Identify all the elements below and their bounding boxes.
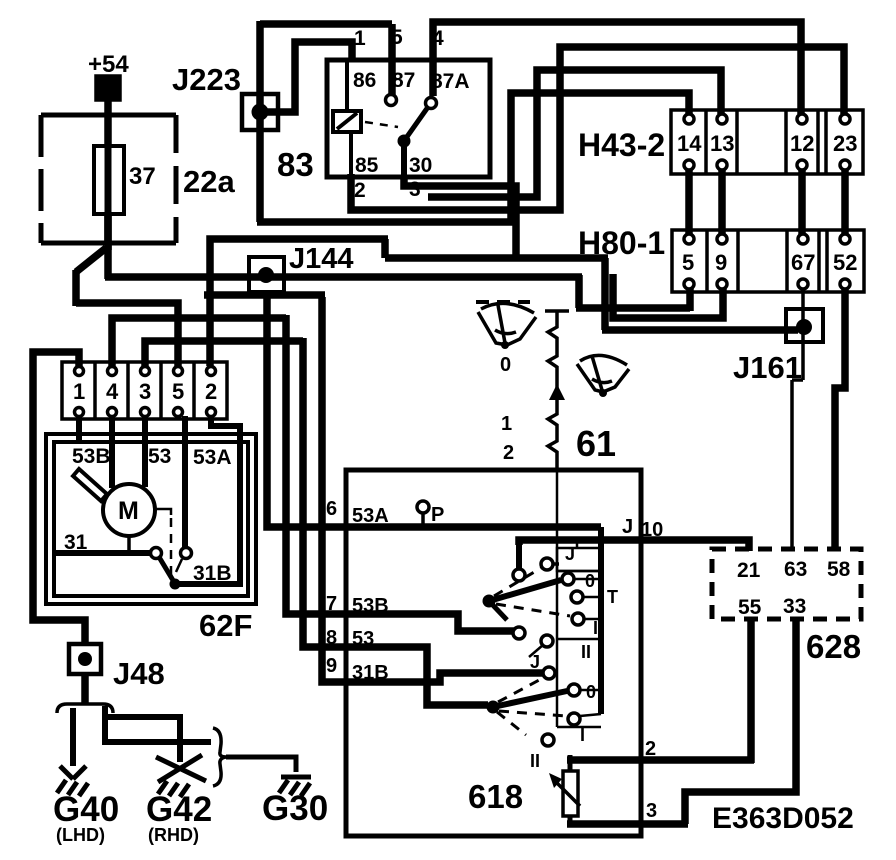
wire 628 pin33 down (685, 619, 796, 824)
svg-text:II: II (530, 751, 540, 771)
switch1 cell separators (557, 571, 601, 639)
switch1 pivot and arms (483, 568, 571, 620)
motor M (103, 484, 155, 536)
wire 628 pin55 down to rheostat wire (747, 619, 755, 763)
svg-text:9: 9 (326, 655, 337, 677)
wire pin87 riser (388, 24, 396, 97)
svg-text:14: 14 (677, 131, 702, 156)
wire J144 down to 618 pin 6 (267, 292, 346, 527)
wire motor pin3 from 618 pin8 (145, 341, 303, 366)
switch1 contacts (513, 558, 604, 657)
fuse 37 (94, 146, 156, 214)
wire y197 pin13 arm (428, 70, 721, 197)
618 pin labels (326, 498, 523, 815)
unit 618 box (346, 470, 641, 836)
park switch contact B (181, 548, 192, 559)
svg-text:628: 628 (806, 628, 861, 665)
component 61 wiper icon right (577, 355, 629, 397)
connector J223 (172, 62, 278, 130)
relay coil (333, 61, 361, 177)
wire 87A to H43 pin12 (433, 22, 801, 114)
svg-text:22a: 22a (183, 164, 235, 199)
wire jog x385 (381, 239, 389, 258)
svg-text:J144: J144 (289, 243, 354, 275)
svg-text:J223: J223 (172, 62, 241, 97)
svg-text:(RHD): (RHD) (148, 825, 199, 845)
wire J223 branch to relay pin1 (266, 42, 352, 112)
svg-text:H43-2: H43-2 (578, 127, 665, 163)
wire relay pin2 to H43 pin23 (351, 47, 844, 210)
svg-text:67: 67 (791, 250, 815, 275)
wire fuse output down (104, 214, 112, 279)
ground G42 (146, 755, 212, 845)
wire y222 to H43 pin14 riser (257, 93, 689, 222)
svg-text:23: 23 (833, 131, 857, 156)
wire rheostat top to 628 pin55 (567, 756, 754, 764)
svg-text:4: 4 (106, 379, 119, 404)
wire fuse branch diagonal to left rail (76, 248, 106, 272)
switch1 J cell (557, 540, 601, 571)
switch1 contact rail (598, 527, 604, 714)
wire fuse to J144 node (105, 273, 582, 281)
component box 22a (41, 115, 235, 243)
svg-text:58: 58 (827, 558, 851, 581)
wire left rail down (72, 270, 80, 306)
wire rheostat bottom to 628 pin33 (567, 820, 688, 828)
wire branch to G42 and brace (102, 706, 211, 762)
relay switch arm 30 (398, 107, 429, 177)
svg-text:J: J (565, 544, 575, 564)
wire relay pin3 exit (404, 177, 516, 258)
connector J161 (733, 309, 823, 385)
svg-text:2: 2 (503, 442, 514, 464)
wire 53A row inside 618 (346, 523, 601, 531)
svg-text:31B: 31B (193, 562, 232, 585)
wire pin4 riser down to 53B row (286, 315, 514, 631)
wire H80-1 pin9 path (613, 274, 723, 318)
svg-text:M: M (118, 497, 139, 525)
wire J/10 to 628 pin21 (519, 540, 749, 551)
wire motor stem to 31 (127, 536, 131, 553)
motor connector 1 4 3 5 2 (62, 362, 227, 419)
wire motor pin1 to left rail (33, 352, 85, 644)
wire H43 pin13 to H80 pin9 (718, 170, 726, 235)
svg-text:2: 2 (205, 379, 217, 404)
svg-text:3: 3 (139, 379, 151, 404)
svg-text:9: 9 (715, 250, 727, 275)
ground G30 (262, 777, 328, 828)
wire H43 pin14 to H80 pin5 (685, 170, 693, 235)
wire to G40 (70, 708, 76, 766)
motor linkage dashed (155, 509, 171, 580)
park switch contact A (151, 548, 162, 559)
wire relay 30 horizontal y258 (385, 254, 608, 262)
svg-text:53: 53 (352, 628, 374, 650)
connector J48 (69, 644, 165, 691)
switch2 contacts (542, 667, 601, 746)
relay contact 87A (426, 98, 437, 109)
park switch arm (159, 557, 174, 582)
ground G40 (53, 766, 119, 845)
wire J48 down (81, 674, 89, 704)
wire brace to G30 (226, 757, 296, 772)
node +54 supply terminal (88, 51, 129, 98)
component 628 dashed box (712, 549, 861, 665)
svg-text:0: 0 (585, 571, 595, 591)
wire H80-1 pin5 stub (686, 288, 694, 311)
wire to motor pin 5 (76, 303, 178, 366)
svg-text:31B: 31B (352, 662, 389, 684)
62F internal labels (64, 445, 232, 585)
svg-text:G30: G30 (262, 789, 328, 828)
connector H80-1 (578, 225, 864, 292)
component 61 rheostat zigzag (500, 311, 616, 470)
park switch open tick (176, 559, 182, 572)
svg-text:J: J (530, 652, 540, 672)
svg-text:53: 53 (148, 445, 171, 468)
wire H80 pin52 to 628 pin58 (835, 288, 845, 551)
wire relay30 net vertical x605 (601, 258, 609, 330)
wire top y24 pin87 to J223 rail (260, 20, 392, 28)
svg-text:21: 21 (737, 559, 761, 582)
svg-text:1: 1 (501, 413, 512, 435)
svg-text:7: 7 (326, 593, 337, 615)
svg-text:H80-1: H80-1 (578, 225, 665, 261)
relay contact 87 (386, 61, 397, 106)
wire power drop to H80-1 pin 5 (575, 275, 583, 308)
relay pin labels (353, 26, 470, 202)
svg-text:55: 55 (738, 596, 762, 619)
relay 83 box (277, 60, 490, 183)
svg-text:37: 37 (129, 163, 156, 190)
svg-text:5: 5 (682, 250, 694, 275)
wire 61 stalk down through 618 (556, 470, 559, 727)
contact P (417, 501, 444, 527)
unit 62F outer box (46, 434, 256, 643)
svg-text:53A: 53A (352, 505, 389, 527)
contact top of switch 1 (513, 569, 525, 581)
connector J144 (249, 243, 354, 292)
wire motor pin stubs into 62F (79, 416, 240, 584)
wire pivot to pin2 lead (175, 581, 243, 587)
wire pin3 riser down to 53 row (303, 338, 488, 705)
svg-text:+54: +54 (88, 51, 129, 78)
svg-text:12: 12 (790, 131, 814, 156)
svg-text:83: 83 (277, 146, 314, 183)
svg-text:5: 5 (172, 379, 184, 404)
svg-text:P: P (431, 504, 444, 526)
svg-text:86: 86 (353, 69, 376, 92)
connector H43-2 (578, 110, 863, 174)
svg-text:6: 6 (326, 498, 337, 520)
wire H43 pin23 to H80 pin52 (841, 170, 849, 235)
component 61 wiper icon left (476, 302, 536, 349)
wire H80 pin67 thin to J161 and 628 pin63 (792, 289, 803, 551)
svg-text:30: 30 (409, 154, 432, 177)
svg-text:87: 87 (392, 69, 415, 92)
wire 618 pin9 row (322, 297, 544, 682)
svg-text:618: 618 (468, 778, 523, 815)
svg-text:G40: G40 (53, 790, 119, 829)
wire 31 inside 62F (56, 550, 150, 556)
svg-text:61: 61 (576, 423, 616, 464)
wire power horizontal y308 (576, 304, 690, 312)
switch2 pivot and arms (487, 678, 568, 735)
svg-text:63: 63 (784, 558, 807, 581)
svg-text:3: 3 (409, 178, 421, 201)
wire J223 rail down (256, 21, 264, 222)
svg-text:J161: J161 (733, 350, 802, 385)
svg-text:13: 13 (710, 131, 734, 156)
switch small labels (530, 516, 663, 822)
svg-text:3: 3 (646, 800, 657, 822)
svg-text:5: 5 (391, 26, 403, 49)
wire H43 pin12 to H80 pin67 (798, 170, 806, 235)
alternative bracket over grounds (57, 704, 113, 713)
svg-text:J48: J48 (113, 656, 165, 691)
relay coil-arm dashed link (365, 122, 398, 127)
wire +54 to fuse (104, 98, 112, 250)
svg-text:62F: 62F (199, 608, 252, 643)
svg-text:4: 4 (432, 27, 444, 50)
wire motor pin4 from 618 pin7 (112, 318, 286, 366)
svg-text:II: II (581, 642, 591, 662)
svg-text:53B: 53B (72, 445, 111, 468)
svg-text:52: 52 (833, 250, 857, 275)
svg-text:33: 33 (783, 595, 806, 618)
svg-text:0: 0 (586, 682, 596, 702)
svg-text:53B: 53B (352, 595, 389, 617)
switch2 cell bottom (557, 726, 601, 729)
svg-text:10: 10 (641, 519, 663, 541)
svg-text:0: 0 (500, 354, 511, 376)
svg-text:T: T (607, 587, 618, 607)
wire to J161 (602, 326, 798, 334)
svg-text:31: 31 (64, 531, 88, 554)
park switch pivot (170, 579, 181, 590)
svg-text:2: 2 (354, 179, 366, 202)
svg-text:J: J (622, 516, 633, 538)
svg-text:87A: 87A (431, 70, 470, 93)
wire y239 to motor pin2 (210, 239, 388, 366)
rheostat in 618 (549, 755, 580, 826)
svg-text:E363D052: E363D052 (712, 802, 854, 835)
svg-text:8: 8 (326, 627, 337, 649)
svg-text:(LHD): (LHD) (56, 825, 105, 845)
svg-text:I: I (593, 618, 598, 638)
svg-text:G42: G42 (146, 790, 212, 829)
svg-text:I: I (580, 725, 585, 745)
wire y295 from pin9 row (204, 291, 325, 299)
motor lever mark (73, 469, 107, 501)
svg-text:1: 1 (354, 27, 366, 50)
brace } (213, 728, 226, 786)
svg-text:85: 85 (355, 154, 379, 177)
svg-text:1: 1 (73, 379, 85, 404)
svg-text:53A: 53A (193, 446, 232, 469)
